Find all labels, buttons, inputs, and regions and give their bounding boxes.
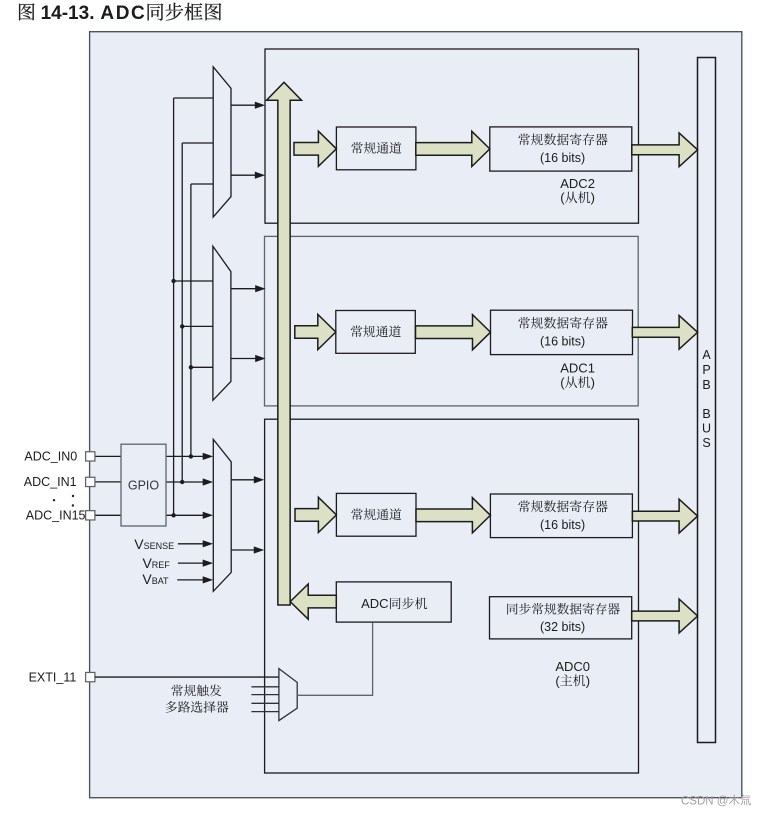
label ADC同步机	[361, 596, 427, 611]
label VBAT	[142, 571, 169, 587]
svg-text:ADC: ADC	[100, 3, 146, 24]
mux M1 (ADC2 channel select)	[213, 67, 231, 217]
wire mux1 output top	[231, 102, 265, 109]
svg-text:ADC_IN15: ADC_IN15	[26, 509, 86, 523]
junction + wire mux2 input top	[171, 279, 212, 283]
block 常规通道 ADC1	[336, 311, 416, 354]
svg-text:EXTI_11: EXTI_11	[29, 670, 77, 684]
wire net IN1 vertical	[181, 143, 183, 482]
wire GPIO to mux3 row0 + junction	[166, 453, 213, 460]
wire mux1 output bot	[231, 172, 265, 179]
arrow 常规通道→寄存器 ADC1	[416, 315, 491, 350]
arrow 常规通道→寄存器 ADC2	[416, 131, 490, 166]
wire mux1 input top	[174, 97, 214, 99]
wire net IN15 vertical	[173, 98, 175, 515]
ADC2 box	[265, 49, 639, 223]
wire mux1 input mid	[182, 142, 213, 144]
label (主机) ADC0	[555, 673, 590, 688]
wire mux3 output top	[231, 476, 264, 483]
svg-text:(16 bits): (16 bits)	[540, 151, 585, 165]
mux M2 (ADC1 channel select)	[213, 246, 231, 400]
label 多路选择器	[166, 701, 229, 713]
block 常规通道 ADC2	[336, 127, 416, 170]
ADC0 box	[265, 419, 639, 773]
svg-text:(: (	[555, 673, 560, 688]
svg-text:(: (	[560, 190, 565, 205]
pin square ADC_IN1	[86, 477, 95, 486]
arrow 寄存器→APB ADC1	[632, 315, 697, 349]
APB BUS label	[702, 348, 711, 450]
wire net IN0 vertical	[190, 184, 192, 456]
mux M3 (ADC0 channel select)	[213, 439, 231, 591]
label VREF	[143, 555, 171, 571]
block 常规数据寄存器 ADC2	[490, 127, 632, 171]
pin ADC_IN1 wire	[95, 481, 121, 483]
label 常规触发	[171, 684, 221, 696]
label ADC_IN0	[24, 449, 77, 463]
label EXTI_11	[29, 670, 77, 684]
svg-text:U: U	[702, 421, 711, 435]
svg-text:REF: REF	[152, 560, 171, 570]
big bus arrow (vertical)	[267, 82, 302, 605]
arrow 常规通道→寄存器 ADC0	[416, 498, 490, 533]
svg-text:ADC0: ADC0	[555, 659, 590, 674]
block 常规数据寄存器 ADC0	[490, 494, 632, 538]
wire trigger stub 3	[251, 702, 279, 704]
arrow into 常规通道 ADC0	[295, 497, 336, 532]
label (从机) ADC2	[560, 190, 595, 205]
svg-text:): )	[591, 190, 595, 205]
arrow 寄存器→APB ADC2	[632, 133, 698, 167]
GPIO label	[128, 479, 160, 493]
svg-text:B: B	[702, 378, 710, 392]
label ADC1	[560, 361, 595, 376]
svg-text:14-13.: 14-13.	[41, 3, 95, 24]
wire mux3 output bot	[231, 546, 264, 553]
label ADC_IN15	[26, 509, 86, 523]
watermark CSDN	[681, 795, 751, 808]
APB bus bar	[698, 58, 716, 743]
junction + wire mux2 input bot	[189, 365, 213, 369]
svg-text:A: A	[702, 348, 711, 362]
wire VREF	[178, 560, 213, 567]
arrow into 常规通道 ADC1	[295, 314, 336, 349]
arrow 寄存器→APB ADC0	[632, 499, 697, 533]
label 常规数据寄存器 (16 bits) ADC1	[518, 317, 607, 349]
svg-text:B: B	[702, 407, 710, 421]
junction + wire mux2 input mid	[180, 324, 213, 328]
label ADC0	[555, 659, 590, 674]
wire GPIO to mux3 row15 + junction	[166, 512, 213, 519]
label 常规通道 ADC0	[351, 508, 401, 520]
svg-text:CSDN @: CSDN @	[681, 795, 728, 807]
wire trigger stub 2	[251, 694, 279, 696]
svg-text:P: P	[702, 363, 710, 377]
svg-text:ADC2: ADC2	[560, 176, 595, 191]
pin square ADC_IN0	[86, 452, 95, 461]
svg-text:ADC_IN0: ADC_IN0	[24, 449, 77, 463]
label 常规数据寄存器 (16 bits) ADC0	[518, 500, 607, 532]
svg-text:(32 bits): (32 bits)	[540, 620, 585, 634]
ellipsis dots	[53, 495, 74, 507]
svg-text:ADC: ADC	[361, 596, 388, 611]
wire GPIO to mux3 row1 + junction	[166, 478, 213, 485]
wire trigger to ADC sync	[297, 623, 372, 696]
wire VBAT	[177, 576, 213, 583]
svg-text:ADC_IN1: ADC_IN1	[24, 475, 77, 489]
pin square EXTI_11	[86, 672, 95, 681]
svg-text:): )	[586, 673, 590, 688]
wire mux1 input bot	[191, 183, 213, 185]
svg-text:S: S	[702, 436, 710, 450]
pin ADC_IN15 wire	[95, 514, 121, 516]
arrow into 常规通道 ADC2	[294, 131, 336, 166]
block ADC同步机	[336, 582, 451, 622]
label 同步常规数据寄存器 (32 bits)	[507, 603, 620, 634]
block 常规数据寄存器 ADC1	[491, 310, 633, 354]
svg-text:BAT: BAT	[152, 576, 169, 586]
ADC1 box	[265, 236, 639, 406]
svg-text:GPIO: GPIO	[128, 479, 160, 493]
mux trigger (regular trigger mux)	[279, 669, 297, 721]
wire trigger stub 4	[251, 711, 279, 713]
label VSENSE	[134, 536, 174, 552]
svg-text:(16 bits): (16 bits)	[540, 334, 585, 348]
pin ADC_IN0 wire	[95, 455, 121, 457]
pin square ADC_IN15	[86, 511, 95, 520]
svg-text:): )	[591, 375, 595, 390]
block 同步常规数据寄存器	[490, 597, 632, 639]
svg-text:(16 bits): (16 bits)	[540, 518, 585, 532]
title 图 14-13. ADC 同步框图	[19, 3, 221, 24]
wire mux2 output top	[231, 285, 266, 292]
label ADC2	[560, 176, 595, 191]
svg-text:(: (	[560, 375, 565, 390]
label 常规数据寄存器 (16 bits) ADC2	[518, 133, 607, 165]
wire mux2 output bot	[231, 355, 266, 362]
wire VSENSE	[178, 540, 213, 547]
arrow ADC同步机→bus	[290, 584, 336, 619]
svg-text:SENSE: SENSE	[144, 541, 175, 551]
block 常规通道 ADC0	[336, 493, 416, 536]
label 常规通道 ADC1	[351, 325, 401, 337]
svg-text:ADC1: ADC1	[560, 361, 595, 376]
label ADC_IN1	[24, 475, 77, 489]
GPIO box	[121, 444, 166, 526]
wire trigger stub 1	[251, 686, 279, 688]
label (从机) ADC1	[560, 375, 595, 390]
arrow 同步寄存器→APB	[632, 599, 698, 633]
label 常规通道 ADC2	[351, 142, 401, 154]
wire EXTI_11	[95, 676, 279, 678]
